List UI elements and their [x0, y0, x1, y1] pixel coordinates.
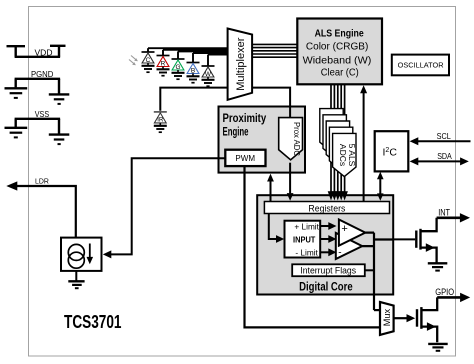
svg-text:5 ALSADCs: 5 ALSADCs [338, 144, 357, 167]
svg-text:- Limit: - Limit [295, 248, 318, 257]
transistor Q1 INT open-drain [416, 218, 436, 263]
comparator upper triangle [338, 220, 365, 259]
svg-text:Wideband (W): Wideband (W) [303, 54, 372, 66]
wire prox ADC down to registers [289, 163, 291, 194]
svg-text:C: C [146, 57, 151, 64]
svg-text:Digital Core: Digital Core [299, 279, 353, 293]
ground at VSS right [49, 135, 70, 145]
photodiode R [157, 56, 170, 76]
svg-text:+: + [341, 223, 347, 235]
wire interrupt flags to output node [365, 269, 374, 271]
svg-text:Multiplexer: Multiplexer [235, 37, 247, 91]
svg-text:Color (CRGB): Color (CRGB) [306, 41, 368, 53]
svg-text:VDD: VDD [35, 47, 53, 57]
5 ALS ADCs converter stack [320, 109, 356, 177]
wire mux to GPIO transistor gate [394, 317, 408, 319]
pin VSS [15, 119, 61, 134]
svg-text:PGND: PGND [31, 69, 53, 79]
light arrows into photodiode C [129, 56, 136, 65]
photodiode C [142, 52, 155, 72]
ground at VSS left [5, 128, 28, 138]
svg-text:R: R [161, 61, 166, 68]
wire comparator node down to mux [374, 309, 380, 311]
wire INPUT to comparator minus-limit [320, 251, 329, 253]
photodiode W [202, 66, 215, 86]
prox ADC converter [279, 118, 303, 160]
ground at INT transistor [428, 263, 448, 270]
comparator output wires [362, 233, 393, 311]
svg-text:B: B [191, 68, 195, 75]
photodiode IR [154, 112, 167, 132]
comparator lower triangle [336, 233, 362, 259]
registers box [264, 202, 389, 215]
ALS Engine block U-ALS [297, 19, 382, 85]
pin VDD [7, 45, 66, 57]
wire INPUT to comparator plus-limit [320, 225, 329, 227]
ground at current source [75, 271, 77, 281]
svg-text:Interrupt Flags: Interrupt Flags [300, 266, 356, 277]
svg-text:Clear (C): Clear (C) [321, 67, 359, 79]
svg-text:ALS Engine: ALS Engine [315, 28, 365, 39]
svg-text:IR: IR [157, 118, 164, 124]
GPIO output arrow [437, 296, 461, 299]
svg-text:SDA: SDA [437, 151, 452, 161]
svg-text:INPUT: INPUT [293, 234, 316, 244]
wire registers up to proximity engine [270, 181, 272, 202]
svg-text:+ Limit: + Limit [294, 222, 319, 231]
mux M1 for GPIO [380, 302, 394, 335]
photodiode G [172, 59, 185, 79]
PWM block [225, 150, 265, 166]
wire I2C to registers bidirectional [379, 177, 381, 196]
photodiode B [187, 63, 200, 83]
photodiode bus to multiplexer [148, 48, 228, 66]
oscillator block [392, 55, 449, 76]
svg-text:-: - [338, 248, 341, 259]
SCL input line [416, 140, 471, 142]
svg-text:GPIO: GPIO [435, 287, 454, 297]
wire INPUT to comparator input [320, 238, 329, 240]
wire digital core to INT transistor gate [393, 238, 415, 240]
transistor Q2 GPIO open-drain [417, 297, 437, 342]
Digital Core block [257, 195, 393, 294]
Proximity Engine block [219, 107, 306, 173]
ground at PGND left [5, 88, 28, 98]
current source / LDR driver [61, 238, 102, 271]
svg-text:INT: INT [438, 207, 450, 217]
wires ALS engine down to registers (5 ADC channels) [331, 85, 345, 194]
ground at PGND right [49, 94, 70, 104]
multiplexer [228, 29, 253, 100]
wire IR photodiode to multiplexer [160, 88, 227, 111]
svg-text:Registers: Registers [308, 203, 345, 214]
SDA bidirectional line [416, 160, 463, 162]
svg-text:Mux: Mux [382, 308, 392, 326]
wire mux to prox ADC [252, 88, 290, 119]
I2C block [375, 131, 409, 171]
wire PWM to LDR driver [111, 158, 225, 254]
svg-text:Engine: Engine [223, 125, 249, 139]
svg-text:SCL: SCL [437, 131, 451, 141]
wire registers up to ALS engine [363, 93, 365, 202]
svg-text:PWM: PWM [235, 153, 255, 163]
svg-text:TCS3701: TCS3701 [64, 312, 122, 332]
interrupt flags box [292, 264, 365, 276]
svg-text:G: G [175, 64, 180, 71]
svg-text:Proximity: Proximity [223, 111, 267, 125]
INT output arrow [437, 217, 461, 220]
pin PGND [15, 79, 61, 94]
INPUT limit box [285, 221, 321, 258]
wire ALS engine to multiplexer bus [252, 44, 297, 57]
ground at GPIO transistor [428, 344, 448, 351]
svg-text:W: W [205, 71, 212, 78]
LDR output arrow [16, 186, 76, 238]
svg-text:VSS: VSS [35, 109, 50, 119]
svg-text:LDR: LDR [35, 176, 49, 185]
svg-text:I2C: I2C [383, 146, 398, 158]
svg-text:Prox ADC: Prox ADC [292, 122, 302, 156]
svg-text:OSCILLATOR: OSCILLATOR [398, 61, 445, 70]
wire PWM down to GPIO mux [245, 166, 380, 327]
wire registers to INPUT [269, 214, 278, 240]
